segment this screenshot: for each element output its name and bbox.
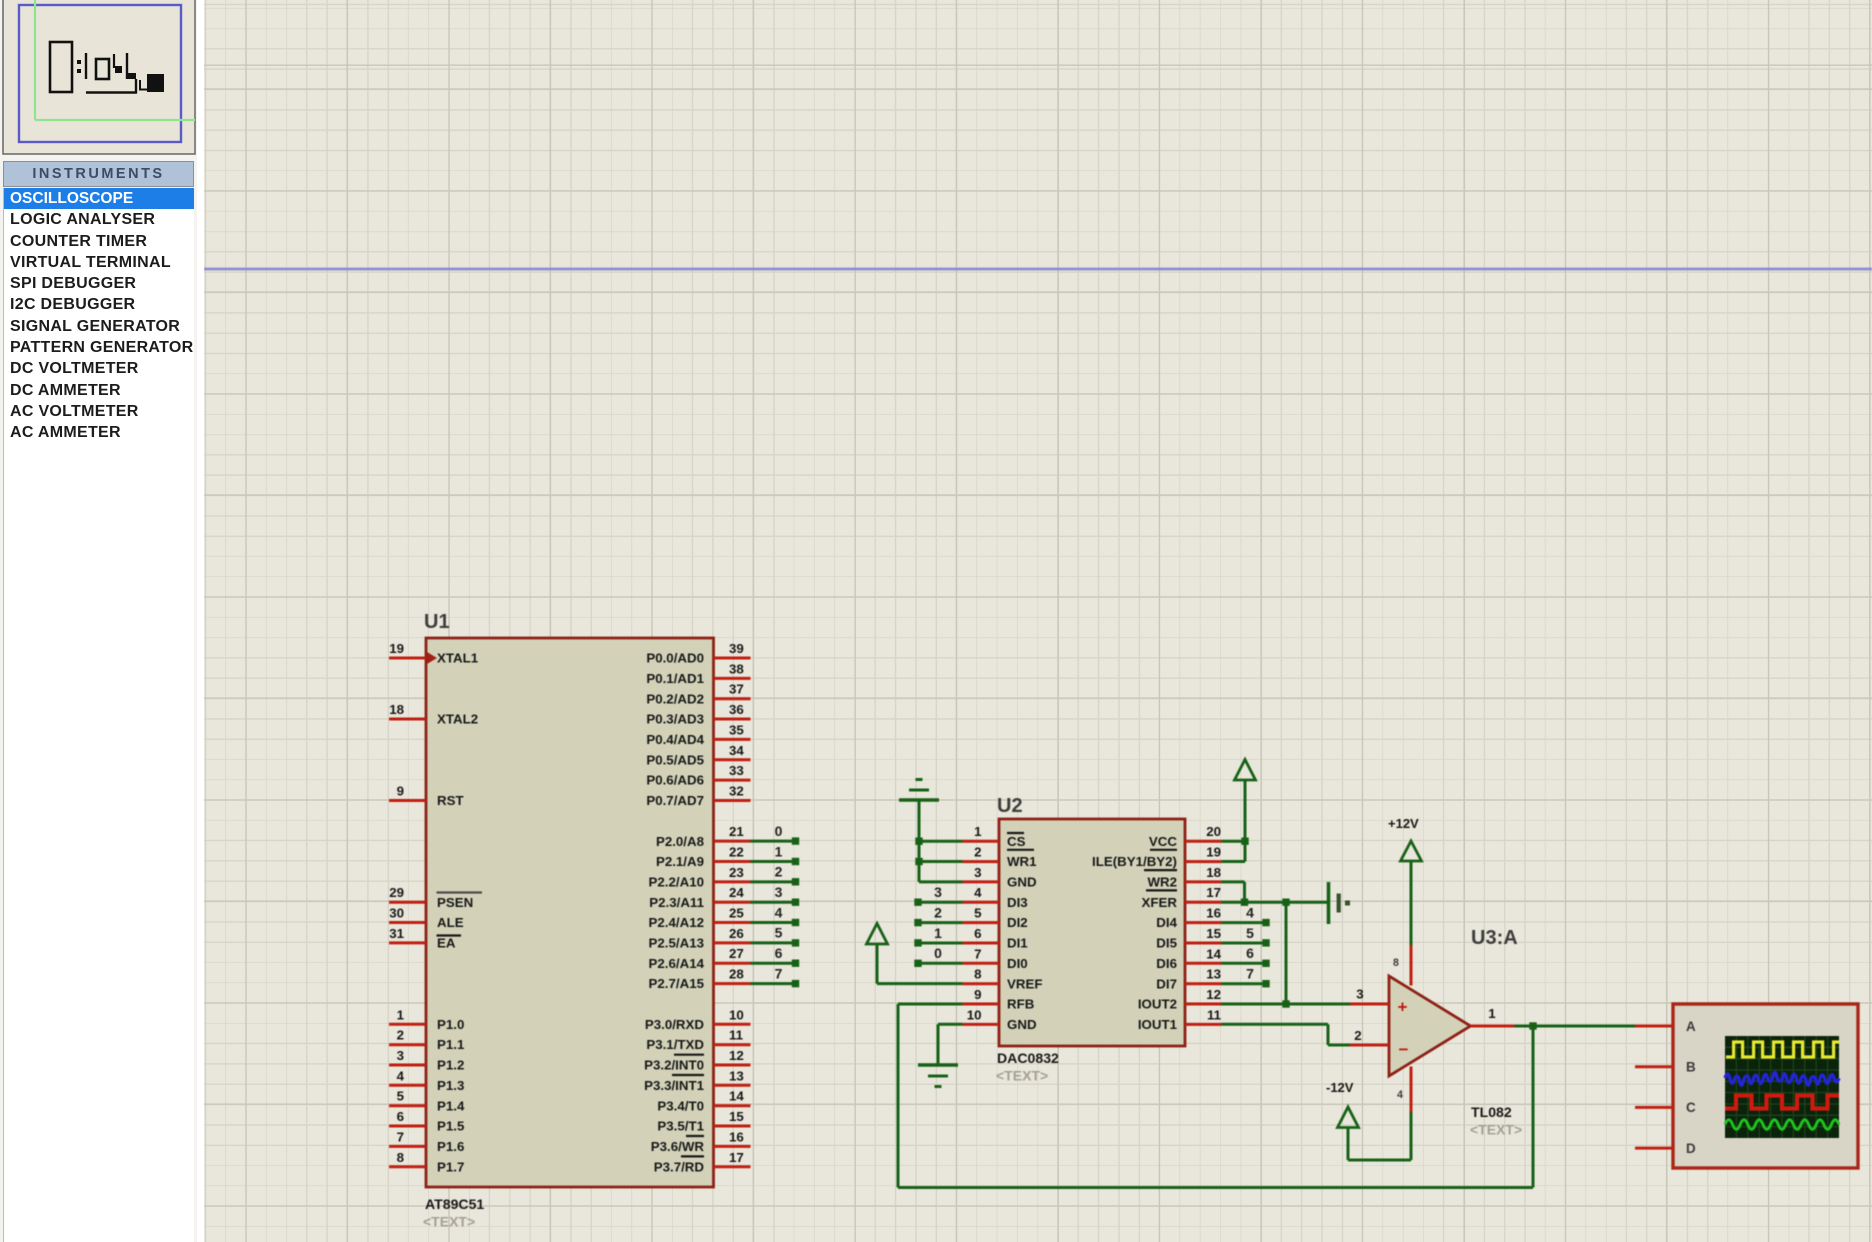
overview mini U1 [50, 42, 72, 92]
svg-text:-12V: -12V [1326, 1080, 1354, 1095]
junction VCC [1241, 838, 1248, 845]
svg-text:<TEXT>: <TEXT> [1470, 1122, 1522, 1138]
U2 refdes label [997, 795, 1023, 817]
svg-text:P1.2: P1.2 [437, 1058, 464, 1073]
svg-text:3: 3 [974, 865, 981, 880]
U3:A refdes label [1471, 927, 1518, 949]
pin 6 (P1.5) of U1 [389, 1109, 465, 1134]
svg-text:P0.5/AD5: P0.5/AD5 [646, 752, 704, 767]
svg-text:9: 9 [974, 987, 981, 1002]
svg-text:U1: U1 [424, 611, 450, 633]
wire P2.4 net stub with label 4 [751, 904, 800, 926]
wire DI5 net stub with label 5 [1222, 925, 1270, 947]
wire VREF to power [877, 982, 963, 985]
svg-text:20: 20 [1206, 824, 1221, 839]
svg-text:35: 35 [729, 722, 744, 737]
svg-text:P2.0/A8: P2.0/A8 [656, 834, 704, 849]
svg-text:A: A [1686, 1019, 1696, 1034]
wire P2.1 net stub with label 1 [751, 843, 800, 865]
pin 12 (IOUT2) of U2 [1138, 987, 1222, 1012]
junction at U2 pin1 wire [915, 838, 922, 845]
svg-text:EA: EA [437, 936, 456, 951]
pin 9 (RST) of U1 [389, 784, 464, 809]
junction output/feedback [1529, 1022, 1536, 1029]
svg-text:VCC: VCC [1149, 834, 1177, 849]
svg-text:WR2: WR2 [1147, 875, 1177, 890]
svg-text:4: 4 [1246, 904, 1254, 920]
svg-text:D: D [1686, 1141, 1696, 1156]
svg-text:7: 7 [974, 946, 981, 961]
svg-text:30: 30 [389, 906, 404, 921]
svg-text:3: 3 [1356, 987, 1363, 1002]
overview window frame [3, 0, 195, 154]
svg-text:P2.4/A12: P2.4/A12 [649, 915, 704, 930]
svg-text:28: 28 [729, 967, 744, 982]
svg-text:XFER: XFER [1142, 895, 1178, 910]
wire XFER to IOUT2 vertical [1285, 902, 1288, 1004]
wire P2.0 net stub with label 0 [751, 823, 800, 845]
pin 38 (P0.1/AD1) of U1 [646, 661, 750, 686]
wire VCC pin20 [1222, 840, 1246, 843]
svg-text:1: 1 [1488, 1006, 1496, 1021]
svg-text:21: 21 [729, 824, 744, 839]
pin 39 (P0.0/AD0) of U1 [646, 641, 750, 666]
svg-text:2: 2 [775, 864, 783, 880]
pin 6 (DI1) of U2 [963, 926, 1029, 951]
pin 5 (DI2) of U2 [963, 906, 1028, 931]
pin 4 (DI3) of U2 [963, 885, 1028, 910]
wire P2.7 net stub with label 7 [751, 965, 800, 987]
junction at U2 pin2 wire [915, 858, 922, 865]
wire P2.5 net stub with label 5 [751, 925, 800, 947]
svg-text:P2.1/A9: P2.1/A9 [656, 854, 704, 869]
svg-text:P0.4/AD4: P0.4/AD4 [646, 732, 704, 747]
U1 refdes label [424, 611, 450, 633]
svg-text:34: 34 [729, 743, 744, 758]
svg-text:19: 19 [389, 641, 404, 656]
overview mini U2 [96, 59, 109, 79]
pin 15 (P3.5/T1) of U1 [657, 1109, 750, 1136]
svg-text:P0.7/AD7: P0.7/AD7 [646, 793, 704, 808]
pin 32 (P0.7/AD7) of U1 [646, 784, 750, 809]
svg-text:8: 8 [974, 967, 981, 982]
pin 15 (DI5) of U2 [1156, 926, 1221, 951]
pin 10 (GND) of U2 [963, 1007, 1037, 1032]
svg-text:6: 6 [974, 926, 981, 941]
svg-text:DI2: DI2 [1007, 915, 1028, 930]
pin 3 (+IN) of U3:A [1350, 987, 1389, 1005]
svg-text:2: 2 [1354, 1028, 1361, 1043]
svg-text:17: 17 [1206, 885, 1221, 900]
svg-text:4: 4 [775, 904, 783, 920]
svg-text:P0.3/AD3: P0.3/AD3 [646, 712, 704, 727]
svg-text:P0.6/AD6: P0.6/AD6 [646, 773, 704, 788]
svg-text:39: 39 [729, 641, 744, 656]
svg-text:14: 14 [729, 1089, 744, 1104]
svg-text:CS: CS [1007, 834, 1026, 849]
wire DI0 net stub with label 0 [914, 945, 962, 967]
svg-text:12: 12 [729, 1048, 744, 1063]
svg-text:ILE(BY1/BY2): ILE(BY1/BY2) [1092, 854, 1177, 869]
svg-text:24: 24 [729, 885, 744, 900]
op-amp U3:A body (TL082) [1389, 976, 1471, 1076]
ground symbol below U2 [918, 1065, 958, 1087]
overview viewport lines (green) [35, 0, 195, 120]
svg-text:P3.4/T0: P3.4/T0 [657, 1098, 704, 1113]
svg-text:DAC0832: DAC0832 [997, 1050, 1059, 1066]
svg-text:1: 1 [397, 1007, 405, 1022]
overview mini op-amp and wires [86, 53, 148, 93]
svg-text:P0.2/AD2: P0.2/AD2 [646, 691, 704, 706]
pin B of oscilloscope [1635, 1060, 1696, 1075]
svg-text:IOUT1: IOUT1 [1138, 1017, 1178, 1032]
svg-text:1: 1 [974, 824, 982, 839]
pin 10 (P3.0/RXD) of U1 [645, 1007, 751, 1032]
svg-text:4: 4 [1397, 1089, 1403, 1101]
svg-text:22: 22 [729, 845, 744, 860]
pin 5 (P1.4) of U1 [389, 1089, 465, 1114]
pin 22 (P2.1/A9) of U1 [656, 845, 751, 870]
wire IOUT2 to op-amp +input [1222, 1003, 1351, 1006]
svg-text:P1.3: P1.3 [437, 1078, 464, 1093]
svg-text:8: 8 [1393, 957, 1399, 969]
svg-text:29: 29 [389, 885, 404, 900]
svg-text:6: 6 [775, 945, 783, 961]
svg-text:WR1: WR1 [1007, 854, 1037, 869]
svg-text:31: 31 [389, 926, 404, 941]
wire DI6 net stub with label 6 [1222, 945, 1270, 967]
oscilloscope screen with waveforms [1725, 1036, 1839, 1138]
wire IOUT1 to op-amp -input [1222, 1024, 1351, 1045]
svg-text:13: 13 [729, 1068, 744, 1083]
svg-text:P2.6/A14: P2.6/A14 [649, 956, 705, 971]
pin 13 (P3.3/INT1) of U1 [644, 1068, 750, 1093]
svg-text:P0.0/AD0: P0.0/AD0 [646, 651, 704, 666]
svg-text:32: 32 [729, 784, 744, 799]
instruments header [3, 161, 194, 187]
pin 18 (WR2) of U2 [1146, 865, 1222, 891]
IC U2 body (DAC0832) [999, 819, 1185, 1046]
pin 16 (P3.6/WR) of U1 [651, 1129, 751, 1156]
svg-text:RFB: RFB [1007, 997, 1034, 1012]
svg-text:2: 2 [397, 1028, 404, 1043]
svg-text:P2.2/A10: P2.2/A10 [649, 875, 704, 890]
left side panel [0, 0, 197, 1242]
svg-text:3: 3 [775, 884, 783, 900]
svg-text:38: 38 [729, 661, 744, 676]
svg-text:P3.0/RXD: P3.0/RXD [645, 1017, 705, 1032]
svg-text:P2.7/A15: P2.7/A15 [649, 976, 705, 991]
svg-text:P3.7/RD: P3.7/RD [654, 1159, 705, 1174]
wire XFER run [1222, 901, 1328, 904]
svg-text:AT89C51: AT89C51 [425, 1196, 484, 1212]
svg-text:DI0: DI0 [1007, 956, 1028, 971]
svg-text:P3.1/TXD: P3.1/TXD [646, 1037, 704, 1052]
svg-text:37: 37 [729, 682, 744, 697]
wire U2 pin10 GND to ground [938, 1024, 963, 1065]
svg-text:B: B [1686, 1060, 1696, 1075]
pin 36 (P0.3/AD3) of U1 [646, 702, 750, 727]
pin 7 (DI0) of U2 [963, 946, 1028, 971]
wire RFB feedback run [898, 1004, 1533, 1188]
pin 2 (WR1) of U2 [963, 845, 1038, 870]
pin 18 (XTAL2) of U1 [389, 702, 478, 727]
pin 14 (DI6) of U2 [1156, 946, 1221, 971]
pin 8 (VREF) of U2 [963, 967, 1043, 992]
svg-text:P3.5/T1: P3.5/T1 [657, 1119, 704, 1134]
power +12V arrow at VREF [867, 924, 888, 984]
svg-text:P1.1: P1.1 [437, 1037, 465, 1052]
pin 9 (RFB) of U2 [963, 987, 1035, 1012]
svg-text:P0.1/AD1: P0.1/AD1 [646, 671, 704, 686]
svg-text:GND: GND [1007, 1017, 1037, 1032]
svg-text:6: 6 [1246, 945, 1254, 961]
overview sheet outline (blue) [19, 5, 181, 142]
pin 24 (P2.3/A11) of U1 [649, 885, 750, 910]
overview mini oscilloscope (black square) [147, 74, 164, 92]
svg-text:+12V: +12V [1388, 816, 1419, 831]
wire P2.6 net stub with label 6 [751, 945, 800, 967]
wire DI3 net stub with label 3 [914, 884, 962, 906]
pin 3 (P1.2) of U1 [389, 1048, 464, 1073]
svg-text:10: 10 [967, 1007, 982, 1022]
power +12V arrow above op-amp [1388, 816, 1422, 945]
svg-text:DI4: DI4 [1156, 915, 1177, 930]
svg-text:13: 13 [1206, 967, 1221, 982]
wire DI2 net stub with label 2 [914, 904, 962, 926]
svg-text:DI3: DI3 [1007, 895, 1028, 910]
svg-text:8: 8 [397, 1150, 404, 1165]
svg-text:9: 9 [397, 784, 404, 799]
svg-text:3: 3 [934, 884, 942, 900]
pin 30 (ALE) of U1 [389, 906, 464, 931]
svg-text:P1.4: P1.4 [437, 1098, 465, 1113]
svg-text:P1.0: P1.0 [437, 1017, 464, 1032]
svg-text:12: 12 [1206, 987, 1221, 1002]
wire P2.3 net stub with label 3 [751, 884, 800, 906]
wire DI4 net stub with label 4 [1222, 904, 1270, 926]
svg-text:5: 5 [775, 925, 783, 941]
pin A of oscilloscope [1635, 1019, 1696, 1034]
svg-text:DI1: DI1 [1007, 936, 1028, 951]
svg-text:DI7: DI7 [1156, 976, 1177, 991]
pin C of oscilloscope [1635, 1100, 1696, 1115]
svg-text:18: 18 [389, 702, 404, 717]
svg-text:11: 11 [729, 1028, 744, 1043]
svg-text:P1.6: P1.6 [437, 1139, 464, 1154]
oscilloscope instrument body [1673, 1004, 1858, 1168]
svg-text:U3:A: U3:A [1471, 927, 1518, 949]
overview mini wires left of U2 [77, 53, 86, 79]
pin 17 (P3.7/RD) of U1 [654, 1150, 751, 1175]
pin 2 (P1.1) of U1 [389, 1028, 465, 1053]
pin 17 (XFER) of U2 [1142, 885, 1222, 910]
svg-text:3: 3 [397, 1048, 404, 1063]
pin 35 (P0.4/AD4) of U1 [646, 722, 750, 747]
power -12V arrow below op-amp [1326, 1080, 1411, 1160]
svg-text:<TEXT>: <TEXT> [996, 1068, 1048, 1084]
svg-text:RST: RST [437, 793, 464, 808]
pin 33 (P0.6/AD6) of U1 [646, 763, 750, 788]
wire DI7 net stub with label 7 [1222, 966, 1270, 988]
svg-text:4: 4 [397, 1068, 405, 1083]
pin 8 (P1.7) of U1 [389, 1150, 464, 1175]
svg-text:14: 14 [1206, 946, 1221, 961]
pin 1 (P1.0) of U1 [389, 1007, 464, 1032]
svg-text:P2.3/A11: P2.3/A11 [649, 895, 704, 910]
svg-text:<TEXT>: <TEXT> [423, 1214, 475, 1230]
svg-text:+: + [1398, 998, 1408, 1017]
svg-text:16: 16 [1206, 906, 1221, 921]
svg-text:5: 5 [397, 1089, 405, 1104]
svg-text:5: 5 [974, 906, 982, 921]
svg-text:23: 23 [729, 865, 744, 880]
pin 29 (PSEN) of U1 [389, 885, 482, 910]
svg-text:IOUT2: IOUT2 [1138, 997, 1177, 1012]
junction IOUT2 [1282, 1000, 1289, 1007]
svg-text:DI6: DI6 [1156, 956, 1177, 971]
svg-text:P3.6/WR: P3.6/WR [651, 1139, 705, 1154]
svg-text:5: 5 [1246, 925, 1254, 941]
svg-text:7: 7 [397, 1129, 404, 1144]
wire DI1 net stub with label 1 [914, 925, 962, 947]
wire op-amp output to oscilloscope A [1515, 1025, 1636, 1028]
pin 34 (P0.5/AD5) of U1 [646, 743, 750, 768]
power arrow (VCC) above U2 right [1235, 760, 1256, 862]
U1 value label AT89C51 [423, 1196, 484, 1230]
svg-text:TL082: TL082 [1471, 1104, 1512, 1120]
pin 7 (P1.6) of U1 [389, 1129, 464, 1154]
pin 1 (OUT) of U3:A [1471, 1006, 1515, 1026]
pin 21 (P2.0/A8) of U1 [656, 824, 751, 849]
svg-text:GND: GND [1007, 875, 1037, 890]
svg-text:U2: U2 [997, 795, 1023, 817]
svg-text:6: 6 [397, 1109, 404, 1124]
pin 37 (P0.2/AD2) of U1 [646, 682, 750, 707]
svg-text:10: 10 [729, 1007, 744, 1022]
pin 19 (ILE(BY1/BY2)) of U2 [1092, 845, 1221, 871]
wire ILE pin19 [1222, 860, 1246, 863]
junction XFER drop [1282, 899, 1289, 906]
svg-text:15: 15 [1206, 926, 1221, 941]
pin 25 (P2.4/A12) of U1 [649, 906, 751, 931]
svg-text:26: 26 [729, 926, 744, 941]
U3:A value label TL082 [1470, 1104, 1522, 1138]
svg-text:16: 16 [729, 1129, 744, 1144]
ground symbol above U2 left [899, 780, 939, 801]
svg-text:PSEN: PSEN [437, 895, 473, 910]
svg-text:C: C [1686, 1100, 1696, 1115]
svg-text:7: 7 [1246, 966, 1254, 982]
svg-text:15: 15 [729, 1109, 744, 1124]
svg-text:DI5: DI5 [1156, 936, 1177, 951]
pin 14 (P3.4/T0) of U1 [657, 1089, 750, 1114]
svg-text:P3.2/INT0: P3.2/INT0 [644, 1058, 704, 1073]
wire ground bus to U2 pins 1,2,3 [919, 800, 963, 882]
svg-text:19: 19 [1206, 845, 1221, 860]
pin 20 (VCC) of U2 [1149, 824, 1222, 850]
IC U1 body (AT89C51) [426, 638, 714, 1187]
sheet border (blue page edge line) [204, 268, 1872, 271]
svg-text:XTAL1: XTAL1 [437, 651, 479, 666]
svg-text:1: 1 [934, 925, 942, 941]
svg-text:2: 2 [934, 904, 942, 920]
svg-text:0: 0 [775, 823, 783, 839]
junction WR2/XFER [1241, 899, 1248, 906]
pin 1 (CS) of U2 [963, 824, 1035, 850]
svg-text:36: 36 [729, 702, 744, 717]
svg-text:P3.3/INT1: P3.3/INT1 [644, 1078, 704, 1093]
svg-text:33: 33 [729, 763, 744, 778]
wire WR2 jog to XFER [1222, 882, 1245, 902]
pin 8 (V+) of U3:A [1393, 945, 1411, 986]
pin 11 (P3.1/TXD) of U1 [646, 1028, 750, 1055]
pin D of oscilloscope [1635, 1141, 1696, 1156]
svg-text:27: 27 [729, 946, 744, 961]
svg-text:18: 18 [1206, 865, 1221, 880]
pin 23 (P2.2/A10) of U1 [649, 865, 751, 890]
pin 3 (GND) of U2 [963, 865, 1037, 890]
pin 4 (V-) of U3:A [1397, 1067, 1411, 1113]
svg-text:2: 2 [974, 845, 981, 860]
pin 13 (DI7) of U2 [1156, 967, 1221, 992]
pin 28 (P2.7/A15) of U1 [649, 967, 751, 992]
svg-text:0: 0 [934, 945, 942, 961]
svg-text:7: 7 [775, 965, 783, 981]
instruments list [3, 188, 194, 1242]
pin 19 (XTAL1) of U1 [389, 641, 479, 666]
pin 26 (P2.5/A13) of U1 [649, 926, 751, 951]
svg-text:P1.7: P1.7 [437, 1159, 464, 1174]
pin 16 (DI4) of U2 [1156, 906, 1221, 931]
pin 2 (-IN) of U3:A [1350, 1028, 1389, 1045]
svg-text:ALE: ALE [437, 915, 464, 930]
U2 value label DAC0832 [996, 1050, 1059, 1084]
svg-text:4: 4 [974, 885, 982, 900]
wire P2.2 net stub with label 2 [751, 864, 800, 886]
svg-text:11: 11 [1207, 1007, 1222, 1022]
pin 11 (IOUT1) of U2 [1138, 1007, 1222, 1032]
pin 12 (P3.2/INT0) of U1 [644, 1048, 750, 1075]
svg-text:17: 17 [729, 1150, 744, 1165]
pin 4 (P1.3) of U1 [389, 1068, 464, 1093]
svg-text:P1.5: P1.5 [437, 1119, 465, 1134]
pin 31 (EA) of U1 [389, 926, 461, 951]
svg-text:VREF: VREF [1007, 976, 1042, 991]
svg-text:25: 25 [729, 906, 744, 921]
svg-text:1: 1 [775, 843, 783, 859]
pin 27 (P2.6/A14) of U1 [649, 946, 751, 971]
terminal at XFER wire end [1329, 882, 1351, 924]
svg-text:P2.5/A13: P2.5/A13 [649, 936, 704, 951]
svg-text:−: − [1399, 1040, 1409, 1059]
svg-text:XTAL2: XTAL2 [437, 712, 478, 727]
